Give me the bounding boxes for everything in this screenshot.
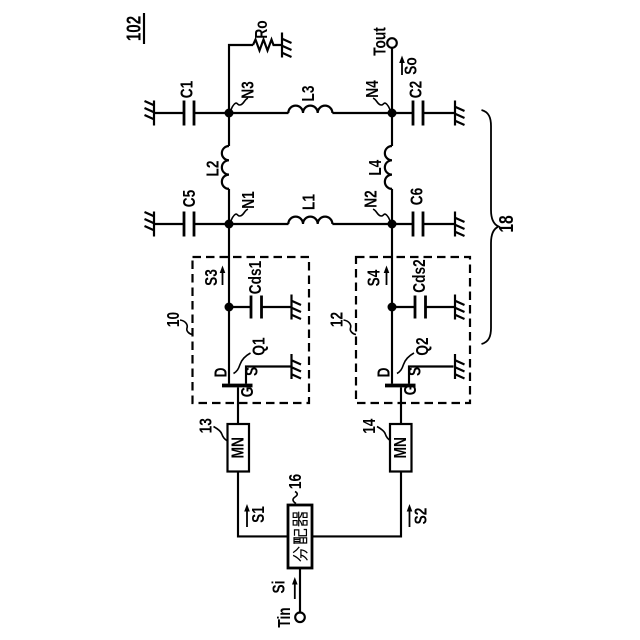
ground mid-left — [145, 212, 155, 237]
transistor Q1 — [222, 307, 291, 424]
wire — [154, 223, 184, 225]
svg-text:L1: L1 — [300, 194, 319, 210]
terminal Tout — [387, 38, 397, 48]
arrow S1 — [244, 504, 250, 527]
brace 18 — [482, 110, 499, 344]
leader N2 — [373, 209, 391, 223]
leader N3 — [230, 98, 248, 112]
svg-text:C2: C2 — [407, 81, 426, 99]
leader 12 — [344, 320, 357, 335]
svg-text:L4: L4 — [366, 160, 385, 176]
svg-text:S2: S2 — [412, 508, 431, 525]
svg-text:Ro: Ro — [252, 20, 271, 38]
divider box 16 (bunpaiki) — [288, 505, 312, 568]
terminal Tin — [295, 613, 305, 623]
svg-text:D: D — [212, 368, 231, 378]
capacitor C2 — [413, 101, 423, 126]
svg-text:C6: C6 — [408, 188, 427, 206]
capacitor Cds1 — [251, 296, 262, 319]
arrow Si — [292, 577, 298, 599]
wire Cds1 to ground — [262, 306, 291, 308]
svg-text:So: So — [402, 57, 421, 75]
kanji BUN — [293, 547, 307, 561]
wire C5 to N1 — [194, 223, 289, 225]
inductor L4 — [385, 113, 392, 224]
leader Q2 — [397, 353, 414, 374]
svg-text:G: G — [238, 387, 257, 398]
leader N4 — [373, 98, 391, 112]
svg-text:N3: N3 — [239, 81, 258, 99]
svg-text:102: 102 — [122, 16, 145, 41]
svg-text:16: 16 — [286, 474, 305, 489]
node N2 — [388, 220, 397, 229]
wire divider to Tin — [299, 568, 301, 612]
svg-text:Tout: Tout — [371, 27, 390, 56]
node in box 12 — [388, 303, 397, 312]
svg-text:Cds2: Cds2 — [410, 259, 429, 293]
svg-text:MN: MN — [391, 437, 410, 458]
wire: Tout to N4 — [391, 48, 393, 113]
capacitor C1 — [184, 101, 194, 126]
svg-text:N4: N4 — [363, 80, 382, 98]
arrow S3 — [220, 266, 226, 286]
svg-text:18: 18 — [495, 215, 517, 232]
kanji KI — [293, 512, 307, 527]
ground at Ro — [282, 33, 292, 58]
arrow S4 — [384, 266, 390, 286]
ground Q1 source — [291, 354, 301, 379]
matching network MN 14 — [390, 424, 412, 472]
svg-text:S1: S1 — [249, 506, 268, 523]
wire node to Cds1 — [229, 306, 251, 308]
svg-text:10: 10 — [164, 312, 183, 327]
wire N1 into box 10 — [228, 224, 230, 307]
inductor L2 — [222, 113, 229, 224]
capacitor Cds2 — [415, 296, 426, 319]
node N1 — [225, 220, 234, 229]
svg-text:Q1: Q1 — [250, 337, 269, 355]
dashed box 12 — [356, 257, 470, 403]
svg-text:Q2: Q2 — [413, 337, 432, 355]
svg-text:S3: S3 — [202, 269, 221, 286]
svg-text:S: S — [406, 367, 425, 376]
resistor Ro — [253, 40, 281, 51]
inductor L1 — [288, 217, 332, 224]
leader Q1 — [234, 353, 251, 374]
svg-text:13: 13 — [197, 418, 216, 433]
svg-text:12: 12 — [328, 312, 347, 327]
ground Cds1 — [291, 295, 301, 320]
svg-text:L2: L2 — [204, 160, 223, 176]
wire MN13 to divider — [238, 472, 288, 537]
svg-text:Si: Si — [270, 581, 289, 594]
svg-text:14: 14 — [360, 419, 379, 434]
svg-text:N2: N2 — [362, 190, 381, 208]
ground Q2 source — [455, 354, 465, 379]
wire Cds2 to ground — [426, 306, 455, 308]
svg-text:S: S — [243, 367, 262, 376]
wire MN14 to divider — [312, 472, 401, 537]
wire — [154, 112, 184, 114]
node N4 — [388, 109, 397, 118]
svg-text:C1: C1 — [178, 81, 197, 99]
svg-text:N1: N1 — [239, 191, 258, 209]
svg-text:S4: S4 — [365, 270, 384, 287]
ground top-left — [145, 101, 155, 126]
wire L3 to N4 — [332, 112, 413, 114]
node N3 — [225, 109, 234, 118]
leader N1 — [230, 209, 248, 223]
svg-text:Cds1: Cds1 — [246, 261, 265, 295]
wire node to Cds2 — [392, 306, 415, 308]
wire N2 into box 12 — [391, 224, 393, 307]
leader 13 — [214, 427, 228, 441]
svg-text:L3: L3 — [299, 85, 318, 101]
kanji PAI — [294, 530, 307, 544]
figure label 102 — [122, 13, 145, 44]
wire L1 to N2 — [332, 223, 413, 225]
leader 16 — [293, 492, 297, 504]
node in box 10 — [225, 303, 234, 312]
svg-text:C5: C5 — [180, 190, 199, 208]
svg-text:MN: MN — [229, 437, 248, 458]
svg-text:Tin: Tin — [275, 607, 294, 627]
matching network MN 13 — [228, 424, 250, 472]
leader 10 — [180, 320, 193, 335]
wire C2 to ground — [423, 112, 454, 114]
dashed box 10 — [193, 257, 310, 403]
arrow S2 — [407, 504, 413, 527]
ground Cds2 — [455, 295, 465, 320]
leader 14 — [377, 427, 391, 441]
inductor L3 — [288, 106, 332, 113]
arrow So — [399, 56, 405, 76]
wire C6 to ground — [423, 223, 454, 225]
capacitor C5 — [184, 212, 194, 237]
ground mid-right — [455, 212, 465, 237]
ground top-right — [455, 101, 465, 126]
wire C1 to N3 — [194, 112, 289, 114]
wire: N3 up and over to Ro — [229, 45, 253, 113]
svg-text:G: G — [401, 385, 420, 396]
svg-text:D: D — [375, 368, 394, 378]
transistor Q2 — [385, 307, 454, 424]
capacitor C6 — [413, 212, 423, 237]
